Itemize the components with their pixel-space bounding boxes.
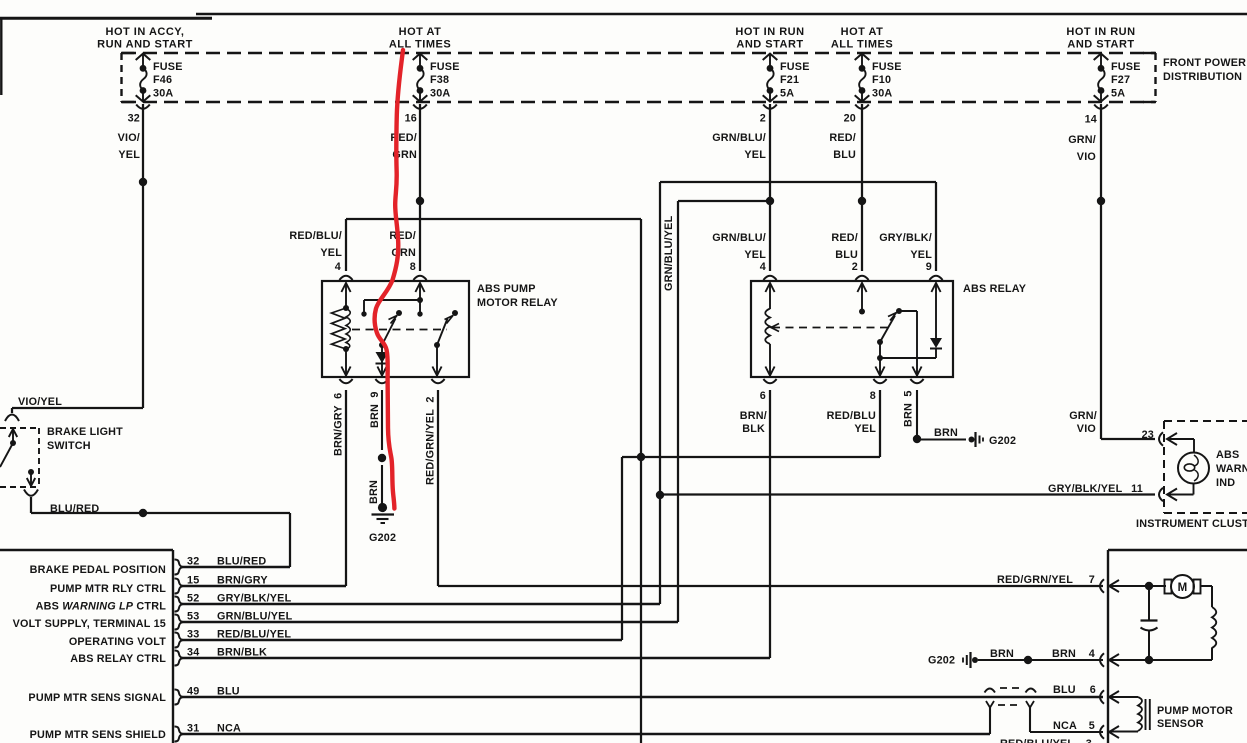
svg-text:14: 14: [1085, 114, 1097, 126]
fuse F38 30A: [413, 54, 428, 60]
svg-text:RUN AND START: RUN AND START: [97, 39, 193, 51]
svg-text:MOTOR RELAY: MOTOR RELAY: [477, 297, 558, 309]
ABS relay pin connectors: [763, 276, 776, 280]
svg-text:PUMP MTR RLY CTRL: PUMP MTR RLY CTRL: [50, 583, 166, 595]
wire BRN/BLK ABS relay pin 6 to module pin 34: [769, 390, 771, 658]
svg-text:GRN/BLU/: GRN/BLU/: [712, 132, 766, 144]
ABS pump motor relay U1 box: [322, 281, 469, 377]
jumper wire inside relay: [364, 299, 420, 301]
svg-text:ABS RELAY CTRL: ABS RELAY CTRL: [70, 653, 166, 665]
svg-text:7: 7: [1089, 574, 1095, 586]
actuator dashed link (ABS relay): [771, 324, 779, 332]
fuse F27 5A: [1094, 54, 1109, 60]
svg-text:4: 4: [760, 261, 766, 273]
motor switch arm: [382, 319, 396, 346]
svg-text:PUMP MTR SENS SHIELD: PUMP MTR SENS SHIELD: [30, 729, 166, 741]
motor capacitor: [1148, 586, 1150, 620]
fuse F10 30A: [855, 54, 870, 60]
bus output connectors: [136, 105, 150, 109]
svg-text:3: 3: [1086, 738, 1092, 743]
svg-text:G202: G202: [369, 532, 396, 544]
diode branch to pin 9 (ABS relay): [880, 357, 936, 359]
svg-text:GRN: GRN: [391, 247, 416, 259]
svg-text:HOT IN RUN: HOT IN RUN: [1066, 26, 1135, 38]
switch output arrow: [30, 472, 32, 486]
svg-text:BRN/GRY 6: BRN/GRY 6: [333, 393, 345, 456]
svg-text:NCA: NCA: [1053, 720, 1077, 732]
svg-text:G202: G202: [989, 435, 1016, 447]
svg-text:HOT IN ACCY,: HOT IN ACCY,: [106, 26, 185, 38]
svg-text:RED/GRN/YEL: RED/GRN/YEL: [997, 574, 1073, 586]
ABS relay U2 box: [751, 281, 953, 377]
svg-text:ALL TIMES: ALL TIMES: [831, 39, 893, 51]
svg-text:33: 33: [187, 629, 199, 641]
svg-text:30A: 30A: [872, 88, 892, 100]
svg-text:ABS WARNING LP CTRL: ABS WARNING LP CTRL: [36, 601, 167, 613]
svg-text:GRN/BLU/: GRN/BLU/: [712, 232, 766, 244]
svg-text:FUSE: FUSE: [430, 61, 460, 73]
switch dashed housing: [0, 427, 39, 429]
svg-text:SWITCH: SWITCH: [47, 440, 91, 452]
svg-text:YEL: YEL: [320, 247, 342, 259]
svg-text:8: 8: [870, 390, 876, 402]
svg-text:49: 49: [187, 686, 199, 698]
svg-text:OPERATING VOLT: OPERATING VOLT: [69, 636, 166, 648]
splice BRN: [1024, 656, 1032, 664]
svg-text:F27: F27: [1111, 74, 1130, 86]
wire RED/BLU/YEL net: ABS relay pin 8 / module pin 33: [879, 390, 881, 457]
svg-text:VOLT SUPPLY, TERMINAL 15: VOLT SUPPLY, TERMINAL 15: [13, 618, 166, 630]
svg-text:AND START: AND START: [1067, 39, 1134, 51]
ABS switch arm: [880, 316, 895, 343]
svg-text:IND: IND: [1216, 477, 1235, 489]
wire RED/BLU/YEL long vertical to bottom: [640, 219, 642, 743]
svg-text:VIO/: VIO/: [118, 132, 140, 144]
shield drain wires: [989, 707, 991, 734]
svg-text:PUMP MOTOR: PUMP MOTOR: [1157, 705, 1233, 717]
svg-text:GRY/BLK/YEL: GRY/BLK/YEL: [1048, 483, 1123, 495]
pin 2 exit arrow: [436, 345, 438, 376]
stationary contact a: [361, 311, 366, 316]
svg-text:4: 4: [335, 261, 341, 273]
relay coil (pump relay): [343, 305, 349, 311]
svg-text:BRN 9: BRN 9: [369, 391, 381, 428]
module pin 49 BLU: [175, 690, 183, 705]
junction pin8/jumper: [417, 297, 423, 303]
svg-text:HOT AT: HOT AT: [841, 26, 884, 38]
svg-text:11: 11: [1131, 483, 1143, 495]
splice BLU/RED: [139, 509, 147, 517]
svg-text:15: 15: [187, 575, 199, 587]
wire BRN relay pin 9 to ground G202: [381, 390, 383, 450]
svg-text:RED/: RED/: [829, 132, 856, 144]
fuse F21 5A: [763, 54, 778, 60]
splice on RED/BLU: [858, 197, 866, 205]
svg-text:BRN: BRN: [934, 427, 958, 439]
svg-text:FRONT POWER: FRONT POWER: [1163, 57, 1246, 69]
stationary contact b: [417, 311, 422, 316]
svg-text:30A: 30A: [153, 88, 173, 100]
svg-text:PUMP MTR SENS SIGNAL: PUMP MTR SENS SIGNAL: [28, 692, 166, 704]
svg-text:VIO: VIO: [1077, 423, 1096, 435]
svg-text:GRN/BLU/YEL: GRN/BLU/YEL: [217, 611, 293, 623]
svg-text:BLU/RED: BLU/RED: [50, 503, 99, 515]
contact to pin 5 wire: [899, 310, 917, 312]
svg-text:2: 2: [852, 261, 858, 273]
svg-text:ABS: ABS: [1216, 449, 1239, 461]
wire GRN/VIO from fuse F27 pin 14 to cluster pin 23: [1100, 104, 1102, 439]
svg-text:4: 4: [1089, 648, 1095, 660]
motor junction: [1145, 582, 1153, 590]
wire RED/BLU/YEL branch to relay pin 4: [346, 218, 641, 220]
svg-text:ABS RELAY: ABS RELAY: [963, 283, 1027, 295]
pin 8 entry arrow and stub: [415, 283, 424, 292]
svg-text:RED/BLU: RED/BLU: [827, 410, 876, 422]
svg-text:YEL: YEL: [744, 149, 766, 161]
wire RED/GRN from fuse F38 pin 16 to relay pin 8: [419, 104, 421, 271]
splice on GRN/BLU/YEL: [766, 197, 774, 205]
actuator dashed link (pump relay): [352, 329, 447, 331]
splice on RED/GRN: [416, 197, 424, 205]
wire VIO/YEL from fuse F46 pin 32: [142, 104, 144, 408]
svg-text:30A: 30A: [430, 88, 450, 100]
svg-text:BLU: BLU: [833, 149, 856, 161]
splice GRY/BLK/YEL to cluster: [656, 491, 664, 499]
module pin 53 GRN/BLU/YEL: [175, 615, 183, 630]
splice RED/BLU/YEL: [637, 453, 645, 461]
svg-text:ALL TIMES: ALL TIMES: [389, 39, 451, 51]
suppression diode relay: [381, 345, 383, 376]
pin 4 arrow + coil (ABS relay): [765, 283, 774, 292]
svg-text:52: 52: [187, 593, 199, 605]
svg-text:BRAKE LIGHT: BRAKE LIGHT: [47, 426, 123, 438]
ground G202 (pump motor relay): [378, 503, 387, 512]
svg-text:16: 16: [405, 113, 417, 125]
svg-text:FUSE: FUSE: [153, 61, 183, 73]
switch arm to edge: [0, 443, 13, 467]
svg-text:BRN/BLK: BRN/BLK: [217, 647, 267, 659]
svg-text:FUSE: FUSE: [1111, 61, 1141, 73]
svg-text:BRN: BRN: [990, 648, 1014, 660]
svg-text:31: 31: [187, 723, 199, 735]
svg-text:BRN/GRY: BRN/GRY: [217, 575, 268, 587]
svg-text:GRY/BLK/: GRY/BLK/: [879, 232, 932, 244]
svg-text:BRN 5: BRN 5: [903, 390, 915, 427]
svg-text:RED/BLU/: RED/BLU/: [289, 230, 342, 242]
svg-text:NCA: NCA: [217, 723, 241, 735]
svg-text:GRN/: GRN/: [1068, 134, 1096, 146]
svg-text:YEL: YEL: [744, 249, 766, 261]
pin 6 exit arrow: [345, 349, 347, 376]
svg-text:BLU: BLU: [217, 686, 240, 698]
switch connector top: [5, 415, 19, 422]
svg-text:BLK: BLK: [742, 423, 765, 435]
svg-text:BRAKE PEDAL POSITION: BRAKE PEDAL POSITION: [30, 564, 166, 576]
svg-text:5A: 5A: [1111, 88, 1125, 100]
fuse F46 30A: [136, 54, 151, 60]
svg-text:INSTRUMENT CLUSTE: INSTRUMENT CLUSTE: [1136, 518, 1247, 530]
ABS warning indicator bulb: [1167, 438, 1194, 440]
ground G202 (ABS relay): [969, 437, 975, 443]
svg-text:5: 5: [1089, 720, 1095, 732]
cable shield symbol: [985, 689, 996, 693]
svg-text:BLU/RED: BLU/RED: [217, 556, 266, 568]
svg-text:5A: 5A: [780, 88, 794, 100]
wire GRN/BLU/YEL branch to module pin 53: [678, 200, 770, 202]
pump motor sensor coil: [1109, 696, 1138, 698]
svg-text:F10: F10: [872, 74, 891, 86]
svg-text:GRY/BLK/YEL: GRY/BLK/YEL: [217, 593, 292, 605]
svg-text:RED/GRN/YEL 2: RED/GRN/YEL 2: [425, 396, 437, 485]
relay pin connectors: [339, 276, 352, 280]
ABS control module box: [0, 549, 173, 551]
svg-text:32: 32: [187, 556, 199, 568]
svg-text:BLU: BLU: [835, 249, 858, 261]
svg-text:2: 2: [760, 113, 766, 125]
module pin 33 RED/BLU/YEL: [175, 633, 183, 648]
switch pin arrow in: [9, 429, 17, 437]
pivot to pin 8: [879, 342, 881, 376]
highlighted current path (red): [375, 50, 403, 509]
svg-text:G202: G202: [928, 655, 955, 667]
module pin 34 BRN/BLK: [175, 651, 183, 666]
hydraulic unit box: [1107, 550, 1109, 743]
wire GRY/BLK/YEL: ABS relay pin 9 to cluster and module pin 52: [935, 182, 937, 271]
pin 2 stub contact: [857, 283, 866, 292]
svg-text:F38: F38: [430, 74, 449, 86]
svg-text:F21: F21: [780, 74, 799, 86]
wire BRN ABS relay pin 5 to ground: [916, 390, 918, 439]
switch output contact: [28, 469, 34, 475]
svg-text:32: 32: [128, 113, 140, 125]
svg-text:23: 23: [1142, 429, 1154, 441]
module pin 52 GRY/BLK/YEL: [175, 597, 183, 612]
svg-text:SENSOR: SENSOR: [1157, 718, 1204, 730]
svg-text:RED/BLU/YEL: RED/BLU/YEL: [1000, 738, 1074, 743]
fuse box bus (FRONT POWER DISTRIBUTION) dashed outline: [122, 52, 1155, 54]
svg-text:RED/: RED/: [389, 230, 416, 242]
svg-text:FUSE: FUSE: [872, 61, 902, 73]
svg-text:YEL: YEL: [118, 149, 140, 161]
svg-text:HOT IN RUN: HOT IN RUN: [735, 26, 804, 38]
second switch pivot: [434, 342, 440, 348]
svg-text:RED/: RED/: [831, 232, 858, 244]
svg-text:YEL: YEL: [854, 423, 876, 435]
second switch contact: [452, 310, 458, 316]
svg-text:8: 8: [410, 261, 416, 273]
switch connector bottom: [24, 490, 38, 496]
svg-text:DISTRIBUTION: DISTRIBUTION: [1163, 71, 1242, 83]
sensor core bars: [1145, 699, 1147, 730]
ABS switch upper contact: [896, 308, 902, 314]
riser RED/GRN/YEL pump relay pin 2 to hydrounit pin 7: [437, 390, 439, 586]
svg-text:ABS PUMP: ABS PUMP: [477, 283, 536, 295]
svg-text:GRN/BLU/YEL: GRN/BLU/YEL: [663, 215, 675, 291]
instrument cluster dashed box: [1163, 421, 1165, 513]
riser BRN/GRY to pump relay pin 6: [345, 390, 347, 586]
svg-text:RED/BLU/YEL: RED/BLU/YEL: [217, 629, 291, 641]
svg-text:6: 6: [1090, 684, 1096, 696]
motor inductor winding: [1211, 586, 1213, 607]
capacitor junction: [1145, 656, 1153, 664]
svg-text:M: M: [1178, 582, 1188, 594]
module pin 32 BLU/RED: [175, 560, 183, 575]
svg-text:20: 20: [844, 113, 856, 125]
pump motor M: [1109, 585, 1166, 587]
wire BLU/RED switch to module pin 32: [30, 497, 32, 513]
page border top: [196, 13, 1247, 16]
second switch arm: [437, 319, 448, 346]
svg-text:BRN: BRN: [1052, 648, 1076, 660]
pin 4 entry arrow: [341, 283, 350, 292]
svg-text:BRN/: BRN/: [740, 410, 767, 422]
svg-text:GRN/: GRN/: [1069, 410, 1097, 422]
module pin 15 BRN/GRY: [175, 579, 183, 594]
svg-text:VIO/YEL: VIO/YEL: [18, 396, 62, 408]
svg-text:AND START: AND START: [736, 39, 803, 51]
svg-text:HOT AT: HOT AT: [399, 26, 442, 38]
svg-text:34: 34: [187, 647, 199, 659]
module pin 31 NCA: [175, 727, 183, 742]
svg-text:WARN: WARN: [1216, 463, 1247, 475]
svg-text:FUSE: FUSE: [780, 61, 810, 73]
svg-text:YEL: YEL: [910, 249, 932, 261]
svg-text:BLU: BLU: [1053, 684, 1076, 696]
splice on VIO/YEL: [139, 178, 147, 186]
splice on GRN/VIO: [1097, 197, 1105, 205]
motor switch common contact: [396, 310, 402, 316]
svg-text:6: 6: [760, 390, 766, 402]
wire RED/BLU from fuse F10 pin 20 to ABS relay pin 2: [861, 104, 863, 271]
svg-text:BRN: BRN: [368, 480, 380, 504]
switch common: [10, 440, 16, 446]
svg-text:53: 53: [187, 611, 199, 623]
svg-text:9: 9: [926, 261, 932, 273]
svg-text:F46: F46: [153, 74, 172, 86]
wire GRN/BLU/YEL from fuse F21 pin 2 to ABS relay pin 4: [769, 104, 771, 271]
svg-text:VIO: VIO: [1077, 151, 1096, 163]
